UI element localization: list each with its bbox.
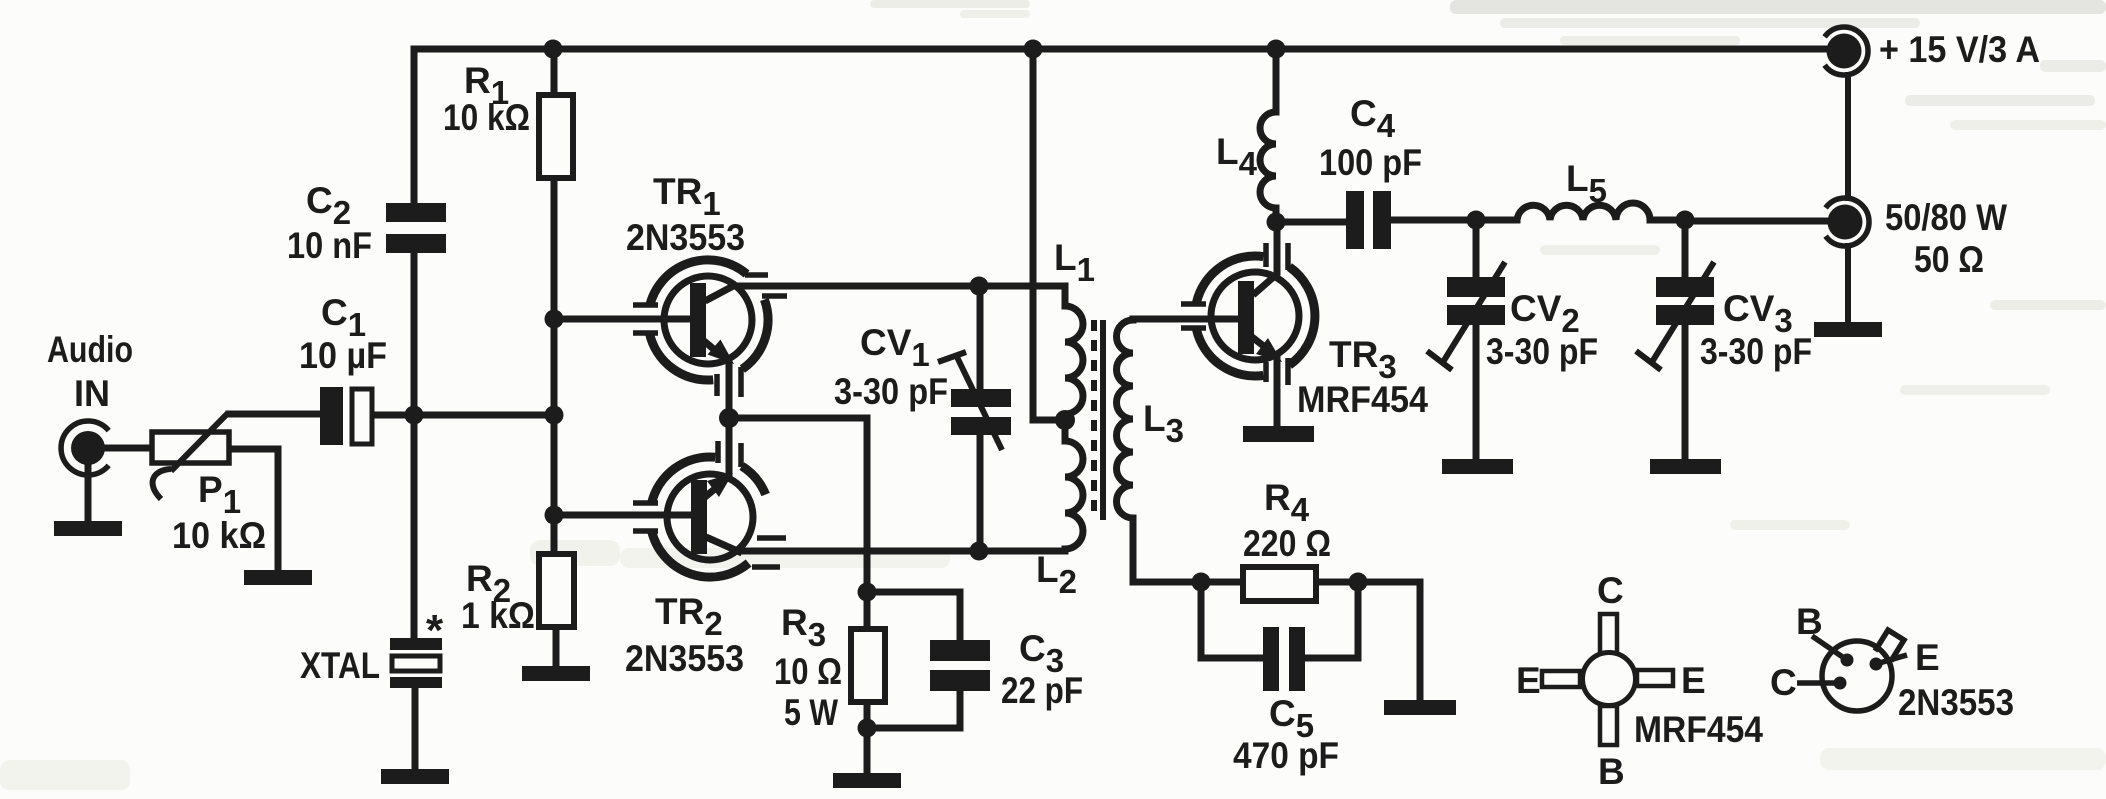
svg-text:C: C xyxy=(1770,662,1797,703)
svg-text:L4: L4 xyxy=(1216,131,1258,182)
svg-text:*: * xyxy=(426,606,444,655)
wire TR1 emitter to node xyxy=(726,360,733,418)
ground CV3 xyxy=(1650,459,1721,474)
svg-text:10 nF: 10 nF xyxy=(287,225,372,266)
wire tank top from TR1 collector to L1 xyxy=(737,283,1065,290)
svg-text:220 Ω: 220 Ω xyxy=(1243,523,1331,564)
svg-text:10 kΩ: 10 kΩ xyxy=(443,97,530,138)
inductor L1 primary top xyxy=(1065,286,1083,420)
svg-text:L1: L1 xyxy=(1054,237,1095,288)
capacitor C1 electrolytic xyxy=(320,387,343,445)
wire L5 to CV3 node xyxy=(1650,217,1685,224)
trimmer capacitor CV2 xyxy=(1427,262,1505,370)
ground P1 xyxy=(244,570,312,585)
transistor TR2 xyxy=(633,441,786,577)
wire CV3 vertical xyxy=(1682,220,1689,459)
svg-text:E: E xyxy=(1915,637,1940,678)
pinout 2N3553 can xyxy=(1797,630,1907,711)
connector +15V xyxy=(1825,27,1868,75)
transformer core dashed line xyxy=(1091,320,1097,520)
potentiometer P1 body xyxy=(152,432,229,463)
svg-text:470 pF: 470 pF xyxy=(1233,735,1339,776)
junction R3-C3 top xyxy=(858,583,877,602)
svg-text:IN: IN xyxy=(74,373,110,414)
svg-text:100 pF: 100 pF xyxy=(1319,142,1422,183)
svg-text:B: B xyxy=(1598,751,1625,792)
svg-text:2N3553: 2N3553 xyxy=(625,638,744,679)
inductor L4 xyxy=(1260,112,1276,208)
junction CV1 top xyxy=(970,277,989,296)
junction CV1 bottom xyxy=(970,542,989,561)
trimmer capacitor CV3 xyxy=(1636,262,1714,370)
svg-text:TR1: TR1 xyxy=(653,171,721,222)
wire audio jack to P1 xyxy=(104,445,152,452)
svg-text:L3: L3 xyxy=(1143,398,1184,449)
svg-text:+ 15 V/3 A: + 15 V/3 A xyxy=(1879,29,2040,70)
junction rail-L4 xyxy=(1267,40,1286,59)
junction R4-C5 left xyxy=(1192,573,1211,592)
wire TR3 emitter to ground xyxy=(1274,358,1281,426)
svg-text:C: C xyxy=(1597,570,1624,611)
svg-text:C2: C2 xyxy=(306,180,351,231)
svg-text:L5: L5 xyxy=(1566,158,1607,209)
svg-text:3-30 pF: 3-30 pF xyxy=(834,371,948,412)
junction R4-C5 right xyxy=(1349,573,1368,592)
wire bias line R1-R2 xyxy=(551,49,558,554)
potentiometer P1 wiper xyxy=(171,414,322,471)
svg-text:P1: P1 xyxy=(198,469,241,520)
svg-text:50/80 W: 50/80 W xyxy=(1885,197,2007,238)
svg-text:L2: L2 xyxy=(1036,549,1077,600)
wire XTAL bottom to ground xyxy=(412,688,419,769)
svg-text:TR3: TR3 xyxy=(1329,334,1397,385)
junction TR3 collector node xyxy=(1267,213,1286,232)
junction bias-C1 xyxy=(545,406,564,425)
wire TR1 base xyxy=(554,316,688,323)
wire R4 right to ground xyxy=(1316,582,1420,700)
crystal XTAL xyxy=(390,638,442,688)
inductor L5 xyxy=(1517,203,1650,220)
capacitor C5 plates xyxy=(1263,627,1305,691)
resistor R1 10k xyxy=(539,95,573,178)
wire tank bottom from TR2 collector to L2 xyxy=(740,548,1065,555)
capacitor C2 plates xyxy=(386,203,446,253)
svg-text:50 Ω: 50 Ω xyxy=(1914,239,1984,280)
svg-text:3-30 pF: 3-30 pF xyxy=(1486,331,1598,372)
trimmer capacitor CV1 xyxy=(938,352,1011,450)
wire C3 branch xyxy=(867,592,960,728)
svg-text:E: E xyxy=(1516,660,1541,701)
svg-text:CV1: CV1 xyxy=(860,322,930,373)
wire connector shells ground xyxy=(1845,75,1851,322)
junction transformer center tap xyxy=(1055,410,1075,430)
junction C1-XTAL node xyxy=(405,406,424,425)
transformer core solid line xyxy=(1100,320,1106,520)
wire TR3 collector to node xyxy=(1274,222,1281,272)
wire L3 top to TR3 base xyxy=(1133,316,1238,323)
inductor L3 secondary xyxy=(1117,319,1133,518)
ground XTAL xyxy=(381,769,449,784)
svg-text:2N3553: 2N3553 xyxy=(1898,682,2014,723)
svg-text:XTAL: XTAL xyxy=(300,645,380,686)
ground CV2 xyxy=(1442,459,1513,474)
ground output connector shell xyxy=(1814,322,1882,337)
wire CV3 node to output connector xyxy=(1685,218,1828,225)
audio input jack xyxy=(61,421,109,475)
svg-text:E: E xyxy=(1681,660,1706,701)
resistor R2 1k xyxy=(539,554,574,627)
svg-text:R3: R3 xyxy=(781,602,826,653)
wire TR2 emitter to node xyxy=(726,418,733,476)
svg-text:B: B xyxy=(1796,601,1823,642)
svg-text:MRF454: MRF454 xyxy=(1297,379,1428,420)
wire center tap feed from rail xyxy=(1033,49,1065,420)
svg-text:10 Ω: 10 Ω xyxy=(774,651,842,692)
wire C5 branch xyxy=(1201,582,1358,658)
svg-text:Audio: Audio xyxy=(47,329,133,370)
capacitor C4 plates xyxy=(1346,191,1391,249)
wire P1 right end to ground xyxy=(229,449,278,570)
wire CV2 vertical xyxy=(1473,220,1480,459)
wire audio jack ground lead xyxy=(85,467,92,521)
ground TR3 emitter xyxy=(1243,426,1314,442)
junction CV2 node xyxy=(1467,211,1486,230)
wire node to R3 xyxy=(729,418,867,592)
wire C2/XTAL branch vertical xyxy=(411,49,418,638)
svg-text:5 W: 5 W xyxy=(784,692,838,733)
junction bias-TR2 base xyxy=(545,506,564,525)
resistor R3 10ohm xyxy=(851,629,885,702)
svg-text:3-30 pF: 3-30 pF xyxy=(1700,331,1812,372)
ground symbols xyxy=(54,322,1882,788)
junction bias-TR1 base xyxy=(545,310,564,329)
svg-text:MRF454: MRF454 xyxy=(1634,709,1763,750)
wire node to C4 xyxy=(1276,219,1346,226)
svg-text:22 pF: 22 pF xyxy=(1001,670,1083,711)
junction emitter node xyxy=(719,408,739,428)
ground R3 xyxy=(833,773,901,788)
svg-text:C4: C4 xyxy=(1350,93,1396,144)
pinout MRF454 xyxy=(1542,614,1673,745)
junction rail-centertap xyxy=(1024,40,1043,59)
inductor L2 primary bottom xyxy=(1065,420,1083,551)
svg-text:R4: R4 xyxy=(1264,477,1310,528)
wire top supply rail xyxy=(414,46,1827,53)
wire CV1 vertical taps xyxy=(977,286,984,551)
junction R3-C3 bottom xyxy=(858,719,877,738)
wire R3 leads xyxy=(864,592,871,773)
svg-text:1 kΩ: 1 kΩ xyxy=(461,595,535,636)
capacitor C3 plates xyxy=(930,640,990,691)
ground audio jack xyxy=(54,521,122,536)
ground R2 xyxy=(522,666,590,681)
junction CV3 node xyxy=(1676,211,1695,230)
wire L4 from rail xyxy=(1273,49,1280,222)
wire R2 to ground xyxy=(553,627,560,666)
ground R4/C5 xyxy=(1384,700,1456,715)
wire C1 line from pot wiper to bias line xyxy=(229,414,554,415)
svg-text:10 kΩ: 10 kΩ xyxy=(172,515,266,556)
wire TR2 base xyxy=(554,512,689,519)
connector RF output 50/80W xyxy=(1826,198,1869,246)
resistor R4 220ohm xyxy=(1243,567,1316,601)
svg-text:10 µF: 10 µF xyxy=(299,335,387,376)
svg-text:2N3553: 2N3553 xyxy=(626,217,745,258)
svg-text:TR2: TR2 xyxy=(655,591,723,642)
junction rail-R1 xyxy=(544,40,563,59)
transistor TR1 xyxy=(633,260,787,397)
wire C4 to CV2 node xyxy=(1391,217,1476,224)
transistor TR3 xyxy=(1181,243,1315,385)
wire L3 bottom to R4 node xyxy=(1133,518,1243,582)
wire CV2 node to L5 xyxy=(1476,217,1517,224)
